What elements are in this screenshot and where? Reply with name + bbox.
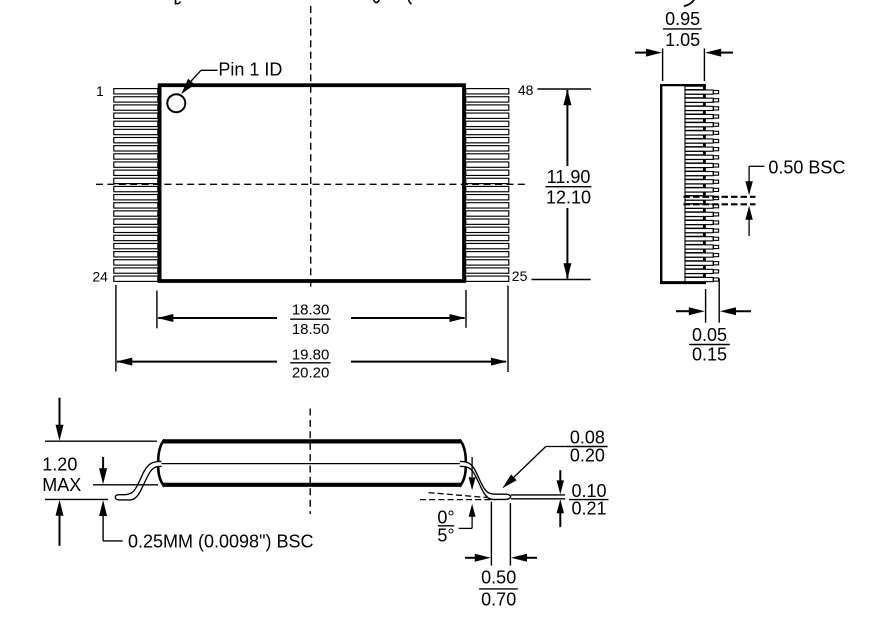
svg-text:0.05: 0.05 xyxy=(692,325,727,345)
svg-text:11.90: 11.90 xyxy=(547,167,591,187)
svg-text:0.20: 0.20 xyxy=(570,446,605,466)
svg-text:24: 24 xyxy=(92,268,108,284)
svg-text:25: 25 xyxy=(512,268,528,284)
svg-text:20.20: 20.20 xyxy=(292,364,330,381)
svg-text:0.70: 0.70 xyxy=(481,590,516,610)
svg-text:0.50: 0.50 xyxy=(481,568,516,588)
svg-text:18.50: 18.50 xyxy=(292,321,330,338)
svg-text:0.95: 0.95 xyxy=(665,9,700,29)
svg-text:0.50 BSC: 0.50 BSC xyxy=(768,157,845,177)
svg-text:Pin 1 ID: Pin 1 ID xyxy=(218,59,282,79)
svg-text:1.20: 1.20 xyxy=(42,455,77,475)
svg-text:1.05: 1.05 xyxy=(665,30,700,50)
svg-text:0.25MM (0.0098") BSC: 0.25MM (0.0098") BSC xyxy=(128,532,313,552)
svg-text:0.21: 0.21 xyxy=(571,499,606,519)
svg-text:MAX: MAX xyxy=(42,475,81,495)
svg-text:48: 48 xyxy=(518,82,534,98)
svg-text:5°: 5° xyxy=(437,526,454,546)
svg-text:1: 1 xyxy=(96,83,104,99)
svg-text:18.30: 18.30 xyxy=(292,302,330,319)
svg-text:0.15: 0.15 xyxy=(692,345,727,365)
svg-text:19.80: 19.80 xyxy=(292,346,330,363)
svg-text:0.08: 0.08 xyxy=(570,427,605,447)
svg-text:12.10: 12.10 xyxy=(546,187,591,207)
